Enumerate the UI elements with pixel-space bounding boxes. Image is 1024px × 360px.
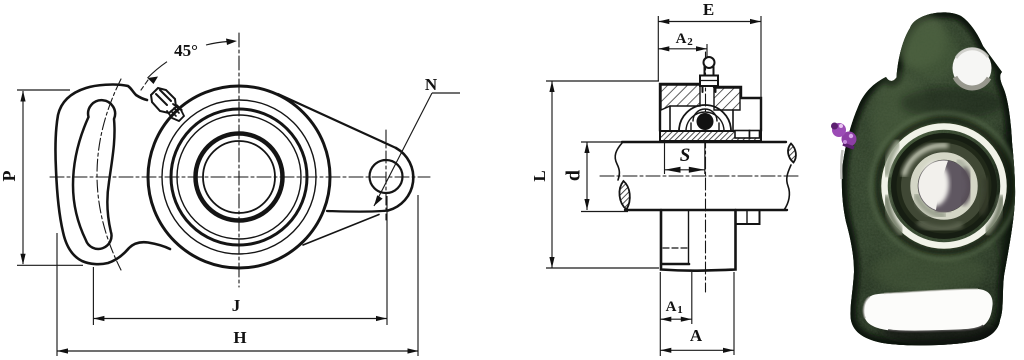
svg-text:H: H — [233, 328, 246, 347]
right arm top edge — [278, 94, 396, 148]
svg-text:A: A — [676, 31, 687, 47]
svg-text:L: L — [530, 170, 549, 181]
shaft bottom edge — [625, 209, 787, 211]
housing outer circle — [148, 86, 330, 268]
right collar step — [736, 210, 760, 224]
hatched left slab — [661, 85, 700, 110]
right shaft break — [788, 144, 796, 163]
J dimension line — [93, 318, 387, 320]
slot centerline arc — [97, 79, 121, 270]
bottom slot opening — [863, 289, 992, 332]
right gusset line — [303, 215, 379, 246]
lighter sheen top-left of lug — [894, 12, 946, 68]
d — [586, 142, 588, 210]
arrowheads middle view — [549, 19, 761, 353]
left view labels — [0, 41, 438, 347]
inner ring face — [901, 143, 987, 229]
cast ridge ring — [871, 113, 1017, 259]
L — [551, 81, 553, 268]
d arrows — [584, 142, 589, 153]
bore chamfer bright ring — [914, 156, 974, 216]
bearing internals — [679, 105, 731, 131]
slot hidden line in hub — [663, 247, 688, 249]
slot bottom thick — [662, 263, 689, 266]
H arrows — [57, 348, 68, 353]
svg-text:N: N — [425, 75, 438, 94]
outer white ring — [885, 127, 1004, 246]
svg-text:J: J — [232, 296, 241, 315]
svg-text:45°: 45° — [174, 41, 198, 60]
svg-text:S: S — [680, 145, 691, 166]
A1 — [660, 318, 692, 320]
bolt hole N — [370, 160, 403, 193]
svg-text:2: 2 — [687, 36, 693, 48]
hole vertical centerline — [385, 130, 387, 220]
inner legs — [669, 106, 671, 131]
45 arc arrows — [148, 77, 159, 85]
top lug hole — [953, 48, 992, 89]
vertical centerline — [238, 33, 240, 287]
set screw boxes on base — [735, 131, 750, 139]
right arm bottom edge — [327, 211, 388, 212]
E — [658, 21, 761, 23]
svg-text:P: P — [0, 171, 19, 182]
P arrows — [20, 91, 25, 102]
housing base strip — [660, 131, 761, 141]
H dimension line — [57, 350, 419, 352]
N leader — [374, 93, 432, 206]
S arrows — [665, 167, 681, 173]
L arrows — [549, 81, 554, 92]
E arrows — [658, 19, 669, 24]
N leader arrow — [374, 195, 383, 206]
hatched right slab — [714, 88, 740, 110]
A2 arrows — [658, 46, 669, 51]
dark seal ring — [891, 133, 997, 239]
A — [660, 349, 734, 351]
ring r77 — [162, 100, 316, 254]
A arrows — [660, 348, 671, 353]
left shaft break — [615, 143, 622, 180]
S — [665, 169, 705, 171]
grease fitting (left view, at 45deg) — [151, 88, 184, 121]
hub below shaft — [661, 210, 736, 271]
middle view labels — [530, 0, 714, 345]
A1 arrows — [660, 317, 671, 322]
bearing photo: housing body — [820, 0, 1024, 360]
svg-text:E: E — [703, 0, 714, 19]
right arm tip arc — [388, 148, 413, 211]
grease zerk (photo, purple) — [842, 132, 857, 147]
ring r62 — [177, 115, 301, 239]
slot inner edge — [688, 211, 690, 263]
grease fitting (section view) — [700, 57, 718, 92]
A2 — [658, 48, 707, 50]
edge shadows — [842, 12, 1015, 345]
bearing vertical centerline — [705, 52, 707, 292]
svg-text:1: 1 — [677, 304, 683, 316]
svg-text:A: A — [666, 299, 677, 315]
svg-text:d: d — [563, 170, 585, 181]
shaft top edge — [622, 141, 786, 143]
left arm outer outline — [55, 85, 170, 265]
ring r68 — [171, 109, 307, 245]
fitting 45 dashes — [141, 80, 148, 90]
housing section outline — [660, 84, 700, 131]
kidney slot — [73, 100, 115, 249]
bore outer circle — [196, 134, 283, 221]
bore — [918, 160, 970, 212]
svg-text:A: A — [690, 326, 703, 345]
P dimension line — [22, 91, 24, 264]
J arrows — [93, 316, 104, 321]
shaft centerline — [600, 175, 800, 177]
45deg dimension arc — [148, 62, 168, 78]
arrowheads left view — [20, 39, 418, 354]
horizontal centerline — [50, 176, 430, 178]
bore inner circle — [203, 141, 275, 213]
left edge gray sliver — [841, 150, 842, 179]
